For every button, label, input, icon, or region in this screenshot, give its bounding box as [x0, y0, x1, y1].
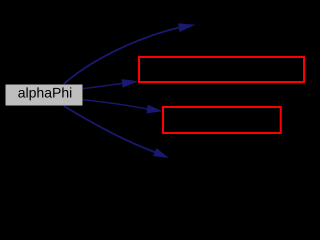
- label alphaPhi: [18, 87, 71, 100]
- edge 2: alphaPhi to red box R1: [83, 79, 139, 89]
- node alphaPhi: [5, 84, 83, 106]
- edge 4: alphaPhi to bottom node (curve down-right): [64, 106, 169, 158]
- node box R1 (red): [139, 57, 304, 82]
- edge 3: alphaPhi to red box R2: [83, 100, 163, 114]
- edge 1: alphaPhi to top node (curve up-right): [64, 23, 196, 84]
- node box R2 (red): [163, 107, 281, 133]
